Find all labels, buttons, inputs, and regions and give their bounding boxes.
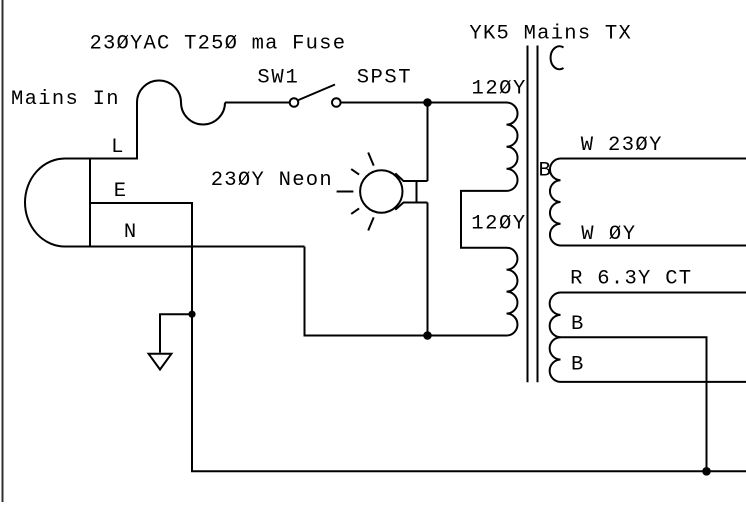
transformer core line 2 xyxy=(537,46,539,383)
wire primary link winding1 to winding2 xyxy=(461,191,507,248)
svg-text:Mains In: Mains In xyxy=(11,88,119,111)
svg-text:23ØYAC T25Ø ma Fuse: 23ØYAC T25Ø ma Fuse xyxy=(90,32,346,55)
neon lamp ray 4 xyxy=(351,208,359,214)
wire ground stub xyxy=(160,314,192,353)
svg-text:B: B xyxy=(571,313,583,336)
wire node A down to neon lamp xyxy=(427,103,429,182)
neon lamp neck bottom xyxy=(395,203,427,210)
svg-text:B: B xyxy=(571,354,583,377)
svg-text:12ØY: 12ØY xyxy=(472,78,526,101)
transformer secondary winding R 6.3V CT lower xyxy=(550,337,746,382)
svg-text:SPST: SPST xyxy=(357,67,411,90)
border left edge line xyxy=(2,0,4,502)
svg-text:E: E xyxy=(114,180,126,203)
transformer T1 primary winding 1 (120V) xyxy=(507,103,518,191)
transformer core line 1 xyxy=(527,46,529,383)
wire E pin down and bottom earth rail xyxy=(90,203,746,471)
connector J1 Mains In shell xyxy=(25,159,90,247)
svg-text:SW1: SW1 xyxy=(257,67,297,90)
svg-text:YK5 Mains TX: YK5 Mains TX xyxy=(469,23,630,46)
node A junction dot xyxy=(423,98,432,107)
switch SW1 lever xyxy=(299,85,336,101)
ground junction dot xyxy=(188,311,195,318)
wire node A to transformer primary top xyxy=(428,102,507,104)
neon lamp NE1 bulb xyxy=(360,170,402,212)
svg-text:B: B xyxy=(539,160,551,183)
wire primary bottom to node B to N corner xyxy=(305,247,507,336)
svg-text:12ØY: 12ØY xyxy=(471,213,525,236)
neon lamp base bar xyxy=(416,181,418,203)
svg-text:W 23ØY: W 23ØY xyxy=(581,134,662,157)
ground symbol xyxy=(149,354,172,370)
transformer T1 primary winding 2 (120V) xyxy=(507,248,518,336)
node B junction dot xyxy=(423,331,432,340)
svg-text:L: L xyxy=(111,136,123,159)
svg-text:23ØY Neon: 23ØY Neon xyxy=(211,169,332,192)
neon lamp ray 2 xyxy=(351,169,359,175)
switch SW1 terminal left xyxy=(290,98,299,107)
neon lamp ray 5 xyxy=(368,217,374,230)
transformer screen C mark xyxy=(551,46,564,69)
fuse F1 230VAC T250ma xyxy=(137,81,225,125)
svg-text:R 6.3Y CT: R 6.3Y CT xyxy=(570,268,691,291)
neon lamp ray 3 xyxy=(337,191,354,193)
switch SW1 terminal right xyxy=(332,98,341,107)
transformer secondary winding W (230V) xyxy=(550,159,746,246)
svg-text:N: N xyxy=(124,221,136,244)
transformer secondary winding R 6.3V CT upper xyxy=(550,293,746,338)
earth rail junction dot xyxy=(702,467,711,476)
wire fuse to switch xyxy=(225,102,290,104)
wire center tap to earth rail xyxy=(561,337,707,471)
wire N pin xyxy=(90,246,305,248)
neon lamp ray 1 xyxy=(368,153,374,166)
wire L pin to fuse xyxy=(90,103,137,159)
svg-text:W ØY: W ØY xyxy=(581,223,635,246)
wire switch to node A xyxy=(341,102,428,104)
neon lamp neck top xyxy=(395,173,427,181)
wire neon lamp to node B xyxy=(427,203,429,336)
